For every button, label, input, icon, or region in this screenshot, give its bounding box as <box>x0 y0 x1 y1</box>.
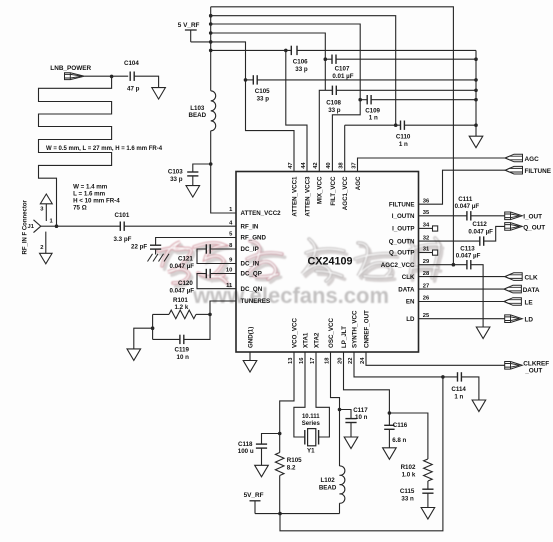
node C110 tap <box>394 123 398 127</box>
svg-text:OSC_VCC: OSC_VCC <box>328 318 335 348</box>
svg-text:10 n: 10 n <box>177 354 190 361</box>
node AGC2_VCC junction <box>452 263 456 267</box>
capacitor C115 <box>427 481 429 489</box>
wire CLK pin 28 <box>419 276 505 278</box>
svg-text:C119: C119 <box>175 347 190 354</box>
svg-text:34: 34 <box>423 223 430 229</box>
svg-text:TUNERES: TUNERES <box>241 298 271 305</box>
port AGC <box>505 154 523 162</box>
wire ATTEN_VCC3 to pin 44 <box>286 50 307 171</box>
wire AGC2_VCC pin 29 <box>419 264 467 266</box>
ground (C113) <box>476 327 490 339</box>
svg-text:C108: C108 <box>326 100 341 107</box>
capacitor C118 <box>262 434 280 445</box>
port CLKREF_OUT <box>505 362 523 370</box>
svg-text:40: 40 <box>326 162 332 168</box>
wire C104 to ground <box>134 76 158 87</box>
svg-text:DC_QP: DC_QP <box>241 271 262 278</box>
node LNB junction <box>110 75 114 79</box>
svg-text:22 pF: 22 pF <box>131 243 147 250</box>
wire to ground (R101/C119) <box>134 328 153 349</box>
crystal Y1 wiring XTA2 <box>316 352 329 437</box>
capacitor C103 <box>193 164 211 172</box>
svg-text:LD: LD <box>525 317 534 324</box>
svg-text:LNB_POWER: LNB_POWER <box>50 65 91 72</box>
svg-text:Y1: Y1 <box>307 448 315 455</box>
port FILTUNE <box>505 166 523 174</box>
svg-text:L = 1.6 mm: L = 1.6 mm <box>73 190 106 197</box>
node C107 tap <box>324 57 328 61</box>
wire net FILT_VCC (bus row 3) <box>211 24 361 100</box>
port LD <box>505 315 523 323</box>
connector J1 pin 2 ground arrow <box>45 232 47 254</box>
port DATA <box>504 285 522 293</box>
svg-text:ATTEN_VCC1: ATTEN_VCC1 <box>291 176 298 217</box>
svg-text:C109: C109 <box>365 107 380 114</box>
ground (U1 GND pin) <box>249 352 251 361</box>
svg-text:CNREF_OUT: CNREF_OUT <box>363 310 370 348</box>
capacitor C101 <box>57 225 121 227</box>
svg-text:Series: Series <box>302 421 321 427</box>
svg-text:22: 22 <box>348 358 354 364</box>
wire 5V_RF return rail <box>280 377 443 531</box>
svg-text:SYNTH_VCC: SYNTH_VCC <box>351 310 358 348</box>
svg-text:AGC: AGC <box>525 156 540 163</box>
capacitor C120 (DC_QP/DC_QN) <box>210 273 236 275</box>
svg-text:27: 27 <box>423 283 429 289</box>
wire LD pin 25 <box>419 318 505 320</box>
svg-text:XTA2: XTA2 <box>313 332 320 348</box>
svg-text:5 V_RF: 5 V_RF <box>178 22 200 29</box>
node C106 tap <box>284 49 288 53</box>
svg-text:31: 31 <box>423 247 430 253</box>
capacitor C121 (DC_IP/DC_IN) <box>210 248 236 250</box>
svg-text:6.8 n: 6.8 n <box>392 437 406 444</box>
capacitor 22 pF <box>150 244 161 246</box>
svg-text:W = 0.5 mm, L = 27 mm, H = 1.6: W = 0.5 mm, L = 27 mm, H = 1.6 mm FR-4 <box>46 146 163 152</box>
watermark elecfans logo glyphs <box>158 238 443 286</box>
wire 5V_RF rail <box>255 513 340 515</box>
port LE <box>504 298 522 306</box>
wire EN pin 26 <box>419 301 504 303</box>
inductor L102 <box>340 466 345 503</box>
wire L102 to 5V_RF rail <box>339 503 341 513</box>
svg-text:1.0 k: 1.0 k <box>402 472 416 479</box>
svg-text:13: 13 <box>288 357 294 364</box>
svg-text:DC_IN: DC_IN <box>241 261 260 268</box>
wire LNB_POWER to junction <box>85 75 129 77</box>
node C118 tap <box>278 432 282 436</box>
ground (top decoupling bus) <box>469 136 483 148</box>
ground (C104) <box>152 88 166 100</box>
ground (C116) <box>383 448 397 460</box>
capacitor C109 <box>366 95 368 104</box>
terminator pin 31 Q_OUTP <box>419 252 433 254</box>
svg-text:25: 25 <box>423 313 430 319</box>
ground (C114) <box>472 400 486 412</box>
svg-text:32: 32 <box>423 235 429 241</box>
svg-text:36: 36 <box>423 198 430 204</box>
capacitor C117 <box>340 410 352 419</box>
wire AGC pin 37 <box>358 158 506 172</box>
svg-text:0.047 µF: 0.047 µF <box>170 287 195 294</box>
svg-text:3.3 pF: 3.3 pF <box>114 236 132 243</box>
node C114 tap <box>441 375 445 379</box>
svg-text:37: 37 <box>351 162 357 168</box>
terminator pin 34 I_OUTP <box>419 227 433 229</box>
node C117 tap <box>338 408 342 412</box>
capacitor C114 <box>457 372 459 381</box>
capacitor C110 <box>400 121 402 130</box>
resistor R105 <box>275 453 284 476</box>
svg-text:0.01 µF: 0.01 µF <box>332 73 353 80</box>
svg-text:I_OUTP: I_OUTP <box>392 226 414 233</box>
svg-text:10 n: 10 n <box>355 414 368 421</box>
svg-text:DC_QN: DC_QN <box>241 286 263 293</box>
svg-text:CLK: CLK <box>402 274 415 281</box>
wire CNREF_OUT pin 24 <box>366 352 505 365</box>
port CLK <box>505 273 523 281</box>
wire LP_JLT pin 20 <box>344 352 390 425</box>
svg-text:C103: C103 <box>168 169 183 176</box>
ground (R101/C119) <box>127 349 141 361</box>
svg-text:J1: J1 <box>28 224 35 230</box>
svg-text:ATTEN_VCC2: ATTEN_VCC2 <box>241 210 282 217</box>
crystal Y1 <box>304 430 306 445</box>
svg-text:EN: EN <box>406 299 415 306</box>
node R101 ground tap <box>151 326 155 330</box>
svg-text:C111: C111 <box>458 196 473 203</box>
wire net ATTEN_VCC1 (bus row 5) <box>191 42 294 172</box>
svg-text:26: 26 <box>423 296 430 302</box>
wire TUNERES <box>210 301 236 314</box>
svg-text:Q_OUT: Q_OUT <box>523 224 545 231</box>
svg-text:33 p: 33 p <box>257 95 270 102</box>
node ground bus junctions <box>474 57 478 61</box>
wire FILTUNE to pin 36 <box>419 170 506 204</box>
svg-text:GND(1): GND(1) <box>247 327 254 348</box>
inductor L103 <box>211 91 216 131</box>
svg-text:44: 44 <box>301 162 307 169</box>
svg-text:0.047 µF: 0.047 µF <box>468 228 493 235</box>
capacitor C104 <box>129 72 131 81</box>
svg-text:C120: C120 <box>178 280 193 287</box>
svg-text:0.047 µF: 0.047 µF <box>170 263 195 270</box>
node J1 junction <box>55 224 59 228</box>
svg-text:33 n: 33 n <box>401 496 414 503</box>
svg-text:2: 2 <box>40 245 43 251</box>
svg-text:AGC1_VCC: AGC1_VCC <box>342 176 349 210</box>
svg-text:L102: L102 <box>321 477 336 484</box>
svg-text:10.111: 10.111 <box>302 414 320 420</box>
svg-text:C117: C117 <box>353 407 368 414</box>
svg-text:1.2 k: 1.2 k <box>175 304 189 311</box>
svg-text:VCO_VCC: VCO_VCC <box>291 318 298 348</box>
svg-text:R105: R105 <box>287 457 302 464</box>
svg-text:1 n: 1 n <box>369 115 378 122</box>
ground (C117) <box>344 437 358 449</box>
svg-text:LP_JLT: LP_JLT <box>341 326 348 348</box>
svg-text:Q_OUTN: Q_OUTN <box>389 238 415 245</box>
svg-text:C114: C114 <box>451 386 466 393</box>
connector J1 RF_IN F-connector <box>34 220 41 233</box>
svg-text:1 n: 1 n <box>454 394 463 401</box>
svg-text:0.047 µF: 0.047 µF <box>456 253 481 260</box>
svg-text:0.047 µF: 0.047 µF <box>455 203 480 210</box>
svg-text:16: 16 <box>299 357 305 364</box>
capacitor C111 <box>419 215 467 217</box>
svg-text:RF_IN F Connector: RF_IN F Connector <box>23 200 29 255</box>
connector J1 pin 3 arrow <box>40 194 52 204</box>
chassis ground (22 pF) <box>148 254 153 262</box>
wire L103 to pin 1 (ATTEN_VCC2) <box>211 131 236 213</box>
capacitor C113 <box>466 260 468 269</box>
capacitor C116 <box>384 424 394 426</box>
svg-text:C106: C106 <box>293 59 308 66</box>
svg-text:DATA: DATA <box>398 286 415 293</box>
node TUNERES/R101 junction <box>208 313 212 317</box>
port I_OUT <box>505 212 523 220</box>
svg-text:_OUT: _OUT <box>524 368 542 375</box>
wire MIX_VCC pin 42 / C108 <box>319 90 332 171</box>
svg-text:XTA1: XTA1 <box>302 332 309 348</box>
svg-text:C112: C112 <box>472 221 487 228</box>
svg-text:33 p: 33 p <box>295 66 308 73</box>
svg-text:DC_IP: DC_IP <box>241 246 259 253</box>
wire 5V_RF bus column <box>210 7 212 91</box>
svg-text:C105: C105 <box>255 88 270 95</box>
svg-text:C101: C101 <box>115 212 130 219</box>
svg-text:10: 10 <box>226 268 232 274</box>
svg-text:47 p: 47 p <box>127 86 140 93</box>
microstrip meander line (LNB filter) <box>39 76 112 226</box>
crystal Y1 wiring XTA1 <box>294 352 305 437</box>
svg-text:L103: L103 <box>190 105 205 112</box>
svg-text:FILT_VCC: FILT_VCC <box>330 176 337 206</box>
svg-text:CLKREF: CLKREF <box>523 360 549 367</box>
svg-text:W = 1.4 mm: W = 1.4 mm <box>73 183 108 190</box>
svg-text:5V_RF: 5V_RF <box>244 492 264 499</box>
svg-text:BEAD: BEAD <box>189 112 207 119</box>
svg-text:38: 38 <box>339 162 345 169</box>
ground (C118) <box>255 465 269 477</box>
wire OSC_VCC pin 18 <box>331 352 340 466</box>
svg-text:35: 35 <box>423 210 430 216</box>
svg-text:20: 20 <box>337 358 343 364</box>
wire net MIX_VCC (bus row 4) <box>211 33 326 90</box>
svg-text:RF_GND: RF_GND <box>241 235 267 242</box>
svg-text:18: 18 <box>324 357 330 364</box>
svg-text:42: 42 <box>313 162 319 168</box>
wire R105 to 5V_RF rail <box>279 476 281 514</box>
svg-text:DATA: DATA <box>523 287 540 294</box>
wire RF_IN to pin 4 <box>124 225 236 227</box>
wire to R102 branch <box>389 413 428 459</box>
wire AGC1_VCC pin 38 stub <box>344 125 346 171</box>
svg-text:LD: LD <box>406 316 415 323</box>
svg-text:8.2: 8.2 <box>287 465 296 472</box>
svg-text:R102: R102 <box>401 464 416 471</box>
node C116 tap <box>388 411 392 415</box>
node bus taps <box>209 14 213 18</box>
svg-text:FILTUNE: FILTUNE <box>389 201 415 208</box>
svg-text:C104: C104 <box>124 60 139 67</box>
svg-text:C107: C107 <box>335 66 350 73</box>
svg-text:24: 24 <box>360 357 366 364</box>
svg-text:11: 11 <box>226 283 233 289</box>
svg-text:www.elecfans.com: www.elecfans.com <box>192 283 389 308</box>
svg-text:75 Ω: 75 Ω <box>73 204 87 211</box>
wire DATA pin 27 <box>419 288 504 290</box>
svg-text:100 u: 100 u <box>238 448 254 455</box>
svg-text:CLK: CLK <box>525 274 539 281</box>
svg-text:C113: C113 <box>460 246 475 253</box>
svg-text:C118: C118 <box>238 441 253 448</box>
svg-text:R101: R101 <box>173 297 188 304</box>
ground (C103) <box>186 186 200 198</box>
svg-text:1 n: 1 n <box>399 141 408 148</box>
svg-text:AGC2_VCC: AGC2_VCC <box>381 262 415 269</box>
capacitor C112 <box>419 240 480 242</box>
ground (C115) <box>421 508 435 520</box>
svg-text:C121: C121 <box>178 255 193 262</box>
svg-text:28: 28 <box>423 271 430 277</box>
svg-text:C115: C115 <box>400 488 415 495</box>
resistor R102 <box>424 459 433 481</box>
svg-text:FILTUNE: FILTUNE <box>525 168 552 175</box>
svg-text:Q_OUTP: Q_OUTP <box>389 250 414 257</box>
node C105 tap <box>244 78 248 82</box>
svg-text:MIX_VCC: MIX_VCC <box>317 176 324 204</box>
svg-text:ATTEN_VCC3: ATTEN_VCC3 <box>304 176 311 217</box>
node C103 tap <box>209 162 213 166</box>
wire SYNTH_VCC pin 22 <box>354 352 458 377</box>
svg-text:47: 47 <box>288 162 294 168</box>
wire net ATTEN_VCC3 (bus row 6) <box>211 49 292 51</box>
wire RF_GND pin 5 <box>156 238 236 246</box>
svg-text:C116: C116 <box>393 422 408 429</box>
wire net AGC1_VCC (bus row 2) <box>211 16 396 126</box>
capacitor C107 <box>331 55 333 64</box>
resistor R101 <box>153 313 169 315</box>
capacitor C105 <box>252 75 254 84</box>
IC U1 CX24109 <box>236 172 419 353</box>
node C109 tap <box>358 98 362 102</box>
capacitor C108 <box>331 86 333 95</box>
node 5V_RF rail junction <box>278 512 282 516</box>
svg-text:33 p: 33 p <box>170 176 183 183</box>
svg-text:I_OUT: I_OUT <box>523 214 542 221</box>
wire ground bus (top right) <box>475 50 477 136</box>
svg-text:RF_IN: RF_IN <box>241 223 259 230</box>
port Q_OUT <box>505 223 523 231</box>
svg-text:BEAD: BEAD <box>319 484 337 491</box>
svg-text:LE: LE <box>525 299 534 306</box>
wire net AGC2_VCC (bus row 1) <box>211 7 454 265</box>
svg-text:33 p: 33 p <box>328 107 341 114</box>
capacitor C106 <box>290 46 292 55</box>
wire FILT_VCC to pin 40 <box>332 100 360 172</box>
svg-text:I_OUTN: I_OUTN <box>392 213 415 220</box>
svg-text:17: 17 <box>310 358 316 364</box>
svg-text:C110: C110 <box>396 134 411 141</box>
svg-text:H < 10 mm FR-4: H < 10 mm FR-4 <box>73 197 120 204</box>
wire VCO_VCC pin 13 <box>280 352 294 453</box>
capacitor C119 <box>153 338 180 340</box>
svg-text:AGC: AGC <box>355 176 362 190</box>
svg-text:CX24109: CX24109 <box>308 256 353 268</box>
svg-text:29: 29 <box>423 259 430 265</box>
